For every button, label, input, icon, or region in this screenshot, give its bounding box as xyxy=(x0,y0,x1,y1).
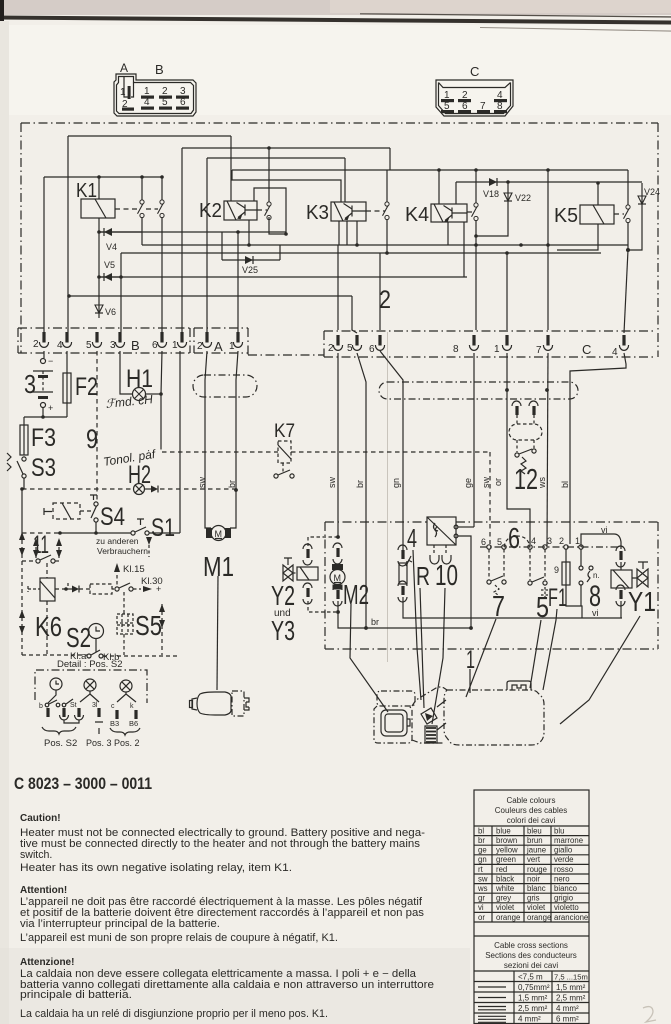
K7 lower switch xyxy=(282,463,284,472)
dashed wire 9 from pin B5 xyxy=(96,351,98,501)
connector strip C lower rail xyxy=(324,356,656,358)
svg-text:3: 3 xyxy=(24,369,36,399)
detail lamp 2 xyxy=(120,680,132,692)
diode V18 xyxy=(456,181,508,183)
diode V6 (vertical zener) xyxy=(95,305,103,313)
svg-text:grey: grey xyxy=(496,894,511,903)
svg-text:vert: vert xyxy=(527,855,541,864)
svg-text:K5: K5 xyxy=(554,205,578,227)
switch 5 xyxy=(528,581,532,585)
H2 diode xyxy=(145,488,152,490)
detail lamp 1 xyxy=(84,679,96,691)
svg-text:Cable cross sections: Cable cross sections xyxy=(494,941,568,950)
svg-text:Couleurs des cables: Couleurs des cables xyxy=(495,806,567,815)
svg-text:blu: blu xyxy=(554,826,564,835)
svg-text:M: M xyxy=(215,529,223,539)
svg-text:black: black xyxy=(496,874,514,883)
motor M2 xyxy=(332,564,343,570)
svg-text:k: k xyxy=(130,703,134,710)
S1 to thick riser xyxy=(149,532,180,534)
secondary scan line xyxy=(360,13,671,17)
svg-text:S3: S3 xyxy=(31,454,56,482)
svg-text:F1: F1 xyxy=(548,584,567,612)
combustion chamber xyxy=(381,710,407,736)
svg-text:red: red xyxy=(496,865,507,874)
S4 contact T actuator xyxy=(90,495,97,500)
wire B2 pin to battery terminal xyxy=(43,351,45,358)
S4 dashed link to contact xyxy=(80,510,93,512)
M2 wire down corner to bus628 xyxy=(338,601,471,628)
dashed stub x59 arrows xyxy=(58,540,60,559)
line thickness samples xyxy=(478,986,506,988)
svg-text:via l’interrupteur principal d: via l’interrupteur principal de la batte… xyxy=(20,918,220,930)
svg-text:La caldaia ha un relé di disgi: La caldaia ha un relé di disgiunzione pr… xyxy=(20,1008,328,1020)
svg-text:H1: H1 xyxy=(126,365,153,393)
svg-text:V6: V6 xyxy=(105,307,116,317)
detail pos brackets xyxy=(42,727,76,734)
Y2 lower pin xyxy=(306,588,309,597)
bus y=296 xyxy=(69,295,352,297)
cross sections table xyxy=(474,935,589,937)
M2 lower pin xyxy=(336,590,339,599)
wire pin2 down to F1 xyxy=(565,549,567,562)
svg-text:K7: K7 xyxy=(274,421,295,442)
svg-text:3l: 3l xyxy=(92,702,98,709)
svg-text:S2: S2 xyxy=(66,622,91,653)
K3 coil bottom risers xyxy=(339,221,357,245)
K4 coil top risers xyxy=(439,170,456,204)
svg-text:vi: vi xyxy=(601,525,608,535)
svg-text:ge: ge xyxy=(463,478,473,488)
svg-text:M: M xyxy=(334,573,342,583)
component 8 contacts xyxy=(580,549,582,566)
riser C6 to bus253 xyxy=(379,253,381,330)
svg-text:1: 1 xyxy=(120,87,126,98)
svg-text:brown: brown xyxy=(496,836,517,845)
R leader xyxy=(420,588,424,708)
riser C4 from K5 junction xyxy=(624,250,628,333)
wire bus158 right end down to K3 xyxy=(344,158,346,202)
svg-text:<7,5 m: <7,5 m xyxy=(518,973,543,982)
S4 contact to S1 bus xyxy=(95,522,97,533)
svg-text:blue: blue xyxy=(496,826,511,835)
R lower pin xyxy=(401,586,404,595)
svg-text:2: 2 xyxy=(328,343,334,354)
vi feed wire to Y1 xyxy=(581,534,621,549)
riser C7 to bus170 xyxy=(547,170,549,330)
S2 stem xyxy=(95,639,97,653)
svg-text:Pos. S2: Pos. S2 xyxy=(44,738,77,749)
KL switch xyxy=(115,587,119,591)
switch S3 xyxy=(22,457,26,461)
fuel pump right connector xyxy=(232,691,244,716)
svg-text:vi: vi xyxy=(478,903,484,912)
K3 dashed actuator link xyxy=(366,210,385,212)
relay S4 dashed frame xyxy=(53,503,80,519)
battery to bus417 xyxy=(42,407,44,417)
battery 3 plates xyxy=(33,370,53,372)
socket pin B5 xyxy=(92,332,101,347)
K3 contact xyxy=(383,202,390,220)
S4 left T mark xyxy=(44,508,52,515)
faded scan tint over italian paragraph xyxy=(0,948,470,1024)
black corner block left xyxy=(0,0,4,21)
component 12 switch xyxy=(515,453,519,457)
F1 bottom wire xyxy=(566,585,582,618)
S3 side continuation marks xyxy=(7,453,11,471)
trunk C1 or down xyxy=(507,353,530,544)
connector strip middle single rail xyxy=(248,354,324,356)
scanner dark edge line xyxy=(0,16,671,25)
Y1 coil box xyxy=(611,570,632,588)
component 12 thermal squiggle xyxy=(521,457,526,474)
continuation arrow below S1 bus xyxy=(146,537,152,545)
svg-text:K1: K1 xyxy=(76,180,97,202)
Y2 upper pin xyxy=(306,549,309,558)
M1 right wire br xyxy=(230,351,238,528)
S1 bus solid xyxy=(58,532,131,534)
trunk C2 sw down to M2 xyxy=(337,353,339,537)
faint fold line xyxy=(387,332,388,662)
H1 left wire from pin B3 xyxy=(120,351,133,394)
svg-text:2,5 mm²: 2,5 mm² xyxy=(556,994,586,1003)
Y2/Y3 dashed branch from trunk xyxy=(336,535,340,539)
stadium junction dots xyxy=(505,388,509,392)
K1 contact a xyxy=(138,200,145,218)
svg-text:marrone: marrone xyxy=(554,836,583,845)
junction dot V4 xyxy=(97,230,101,234)
riser C1 to bus253 xyxy=(506,253,508,330)
svg-text:sw: sw xyxy=(197,477,207,489)
svg-text:K2: K2 xyxy=(199,200,222,222)
lower box bottom border xyxy=(325,648,658,650)
glow plug terminals xyxy=(454,525,458,529)
R upper pin xyxy=(401,550,404,559)
F2 down to bus417 xyxy=(66,403,68,417)
leader Y1 xyxy=(560,616,640,724)
svg-text:or: or xyxy=(493,478,503,486)
svg-text:ge: ge xyxy=(478,846,487,855)
svg-text:or: or xyxy=(478,913,485,922)
wire riser A2 to bus158 xyxy=(206,158,208,332)
K7 dashed line right xyxy=(291,451,490,453)
svg-text:6 mm²: 6 mm² xyxy=(556,1015,579,1024)
S5 dashed boxes xyxy=(117,614,133,623)
connector strip C upper rail xyxy=(324,330,656,332)
svg-text:br: br xyxy=(227,480,237,488)
svg-text:7,5 ...15m: 7,5 ...15m xyxy=(554,973,588,982)
wire riser B2 to bus177 xyxy=(43,177,45,332)
svg-text:Cable colours: Cable colours xyxy=(507,796,556,805)
svg-text:4: 4 xyxy=(144,97,150,108)
K5 contact risers xyxy=(627,170,629,250)
S2 switch xyxy=(87,654,91,658)
trunk C4 bl jog down xyxy=(570,353,626,544)
K6 bottom dashed xyxy=(46,601,48,655)
svg-text:K6: K6 xyxy=(35,611,62,642)
socket pin A1 xyxy=(233,332,242,347)
diode V25 xyxy=(222,259,280,261)
svg-text:4: 4 xyxy=(407,523,417,553)
riser C2 to bus245 xyxy=(337,245,339,330)
K2 loop wire xyxy=(254,188,286,234)
connector plug A/B outline xyxy=(114,74,196,116)
svg-text:3: 3 xyxy=(547,536,552,546)
wire riser B1 to bus148 xyxy=(181,148,183,332)
K2 contact riser top xyxy=(268,148,270,202)
bus y=180 K3 feed xyxy=(232,170,341,202)
svg-text:sezioni dei cavi: sezioni dei cavi xyxy=(504,961,558,970)
svg-text:Attention!: Attention! xyxy=(20,885,67,896)
H1 right wire to junction xyxy=(146,393,162,395)
V18 line continues to V24 column xyxy=(508,181,642,183)
left edge scan shading xyxy=(0,21,9,1024)
svg-text:jaune: jaune xyxy=(526,846,546,855)
big box left border xyxy=(20,123,22,353)
svg-text:Pos. 2: Pos. 2 xyxy=(114,738,140,748)
svg-text:12: 12 xyxy=(514,464,538,496)
svg-text:5: 5 xyxy=(497,537,502,547)
detail dash-dot frame xyxy=(35,670,147,703)
M1 leader line to pump xyxy=(217,576,218,690)
bus y=417 xyxy=(24,416,67,418)
K5 coil top junction dot xyxy=(596,181,600,185)
svg-text:6: 6 xyxy=(180,97,186,108)
connector 6 dashed arc pins 5-4 xyxy=(504,536,530,547)
svg-text:2: 2 xyxy=(33,339,39,350)
svg-text:A: A xyxy=(214,339,223,354)
svg-text:ws: ws xyxy=(537,477,547,489)
svg-text:sw: sw xyxy=(478,874,488,883)
leader 4 xyxy=(413,550,421,700)
Y1 valve symbol xyxy=(637,569,648,587)
svg-text:4: 4 xyxy=(531,536,536,546)
fuse F1 xyxy=(562,562,570,585)
svg-text:rt: rt xyxy=(478,865,484,874)
fuel pump body xyxy=(197,692,231,715)
lower box right border xyxy=(657,522,659,649)
wire ge into terminal xyxy=(458,526,474,528)
junction dots on buses xyxy=(97,175,101,179)
fuse F3 xyxy=(23,417,25,425)
detail pin cups xyxy=(60,715,84,720)
socket pin B3 xyxy=(115,332,124,347)
K4 contact risers xyxy=(475,170,477,330)
connector strip A lower rail xyxy=(194,352,248,354)
svg-text:2: 2 xyxy=(379,286,391,314)
svg-text:4 mm²: 4 mm² xyxy=(518,1015,541,1024)
lower box left border xyxy=(324,522,326,649)
burner slant marks xyxy=(437,700,446,730)
svg-text:tive must be connected directl: tive must be connected directly to the h… xyxy=(20,838,420,850)
right dashed rail x162 arrows xyxy=(161,604,163,655)
leader 7 xyxy=(466,619,496,697)
M2 leader line xyxy=(350,604,388,712)
svg-text:orange: orange xyxy=(527,913,551,922)
junction dots bus628 xyxy=(364,626,368,630)
scanner top band xyxy=(0,0,671,15)
trunk C8 ge down xyxy=(473,353,475,527)
svg-text:Verbrauchern: Verbrauchern xyxy=(97,546,148,556)
wire bus148 right end down xyxy=(389,148,391,170)
svg-text:V4: V4 xyxy=(106,242,117,252)
H1 junction riser from pin B6 xyxy=(161,351,162,445)
S4 contact xyxy=(94,502,98,506)
svg-text:principale di batteria.: principale di batteria. xyxy=(20,989,132,1001)
svg-text:R: R xyxy=(416,561,430,591)
svg-text:0,75mm²: 0,75mm² xyxy=(518,983,550,992)
brighter top strip xyxy=(0,25,671,115)
K2 dashed actuator link xyxy=(257,209,267,211)
wire riser B3 busE to pin xyxy=(120,253,122,332)
Y2 coil box xyxy=(297,567,318,580)
svg-text:2,5 mm²: 2,5 mm² xyxy=(518,1004,548,1013)
bus y=158 xyxy=(207,157,345,159)
svg-text:c: c xyxy=(111,703,115,710)
svg-text:K4: K4 xyxy=(405,204,429,226)
K1 contact a risers xyxy=(141,177,143,245)
M1 left wire sw xyxy=(205,351,211,528)
svg-text:Detail : Pos. S2: Detail : Pos. S2 xyxy=(57,659,122,670)
svg-text:4 mm²: 4 mm² xyxy=(556,1004,579,1013)
junction dots V5 xyxy=(97,275,101,279)
svg-text:5: 5 xyxy=(162,97,168,108)
svg-text:S4: S4 xyxy=(100,503,125,531)
relay K5 xyxy=(580,205,614,224)
relay K3 xyxy=(331,202,366,221)
svg-text:rouge: rouge xyxy=(527,865,547,874)
K2 contact xyxy=(265,202,272,220)
K1 dashed actuator link xyxy=(115,208,158,210)
svg-text:2: 2 xyxy=(197,341,203,352)
svg-text:vi: vi xyxy=(592,608,599,618)
detail pos3 minus xyxy=(95,722,103,734)
fuse F2 xyxy=(66,351,68,373)
socket pin B1 xyxy=(177,332,186,347)
V22 wire down and left to contact xyxy=(476,182,508,236)
diode V4 xyxy=(99,231,142,233)
svg-text:St: St xyxy=(70,702,77,709)
S5 dashed riser xyxy=(123,592,125,655)
dashed resistor box xyxy=(90,584,112,594)
svg-text:gn: gn xyxy=(478,855,487,864)
svg-text:violetto: violetto xyxy=(554,903,579,912)
K6 dashed riser xyxy=(46,563,48,578)
svg-text:colori dei cavi: colori dei cavi xyxy=(507,816,556,825)
leader F1 xyxy=(543,609,557,690)
svg-text:A: A xyxy=(120,61,128,75)
dashed stub x36 arrows xyxy=(35,540,37,559)
socket pin C5 xyxy=(352,335,361,350)
svg-text:Caution!: Caution! xyxy=(20,813,61,824)
svg-text:1: 1 xyxy=(144,86,150,97)
faint pencil mark bottom right xyxy=(643,1007,656,1022)
svg-text:M2: M2 xyxy=(343,579,369,610)
svg-text:6: 6 xyxy=(508,523,520,555)
glow plug 10 box xyxy=(427,517,456,545)
svg-text:C 8023 – 3000 – 0011: C 8023 – 3000 – 0011 xyxy=(14,774,152,793)
leader 5 xyxy=(530,620,541,688)
Y1 wire down to bus618 xyxy=(620,601,622,618)
bus296 dots xyxy=(67,294,71,298)
K5 coil bottom wire xyxy=(557,224,598,250)
svg-text:H2: H2 xyxy=(128,461,151,489)
svg-text:B6: B6 xyxy=(129,719,138,728)
socket pin C6 xyxy=(375,335,384,350)
bus y=253 xyxy=(121,252,601,254)
svg-text:4: 4 xyxy=(612,347,618,358)
svg-text:verde: verde xyxy=(554,855,574,864)
svg-text:S5: S5 xyxy=(135,610,162,641)
lower box top border xyxy=(325,521,658,523)
colour rows xyxy=(477,826,588,921)
component 12 pins xyxy=(515,406,518,415)
conn6 pin 1 xyxy=(579,545,583,549)
svg-text:br: br xyxy=(478,836,485,845)
colour table grid xyxy=(474,826,589,922)
socket pin C1 xyxy=(502,335,511,350)
conn6 pin 6 xyxy=(487,545,491,549)
K5 contact xyxy=(624,205,631,223)
H2 dashed wire right to br wire xyxy=(160,488,236,490)
cable colours table frame xyxy=(474,790,589,1024)
svg-text:n.: n. xyxy=(593,571,600,580)
K4 contact xyxy=(472,203,479,221)
K6 left T mark xyxy=(28,586,40,592)
svg-text:Y2: Y2 xyxy=(271,580,295,611)
svg-text:yellow: yellow xyxy=(496,846,518,855)
socket pin C4 xyxy=(619,335,628,350)
detail wires clock/lamps xyxy=(48,690,136,703)
bus y=134 xyxy=(68,135,231,137)
svg-text:9: 9 xyxy=(86,424,98,454)
Y2 valve symbol xyxy=(283,565,293,581)
svg-text:ws: ws xyxy=(477,884,488,893)
svg-text:3: 3 xyxy=(110,340,116,351)
svg-text:V18: V18 xyxy=(483,189,499,199)
svg-text:Sections des conducteurs: Sections des conducteurs xyxy=(485,951,577,960)
svg-text:gris: gris xyxy=(527,894,540,903)
svg-text:bl: bl xyxy=(478,826,484,835)
svg-text:5: 5 xyxy=(86,340,92,351)
trunk C5 br down xyxy=(357,353,366,628)
socket pin C7 xyxy=(543,335,552,350)
leader 10 xyxy=(432,588,445,724)
svg-text:giallo: giallo xyxy=(554,846,573,855)
svg-text:gn: gn xyxy=(391,478,401,488)
svg-text:switch.: switch. xyxy=(20,849,52,861)
motor M1 xyxy=(206,528,212,538)
V24 wire down to junction xyxy=(628,183,642,250)
svg-text:grigio: grigio xyxy=(554,894,574,903)
dash-dot stadium right xyxy=(379,382,578,399)
svg-text:sw: sw xyxy=(327,477,337,489)
V18 junction dot xyxy=(506,180,510,184)
dashed rail x22 with arrows xyxy=(21,533,23,655)
K1 contact b risers xyxy=(161,177,163,332)
socket pin B4 xyxy=(62,332,71,347)
K2 coil bottom risers xyxy=(248,220,250,245)
svg-text:F3: F3 xyxy=(31,424,56,452)
dashed bottom rail y=655 xyxy=(22,655,180,656)
connector strip A upper rail xyxy=(194,327,248,329)
K4 coil bottom risers xyxy=(448,222,464,277)
svg-text:nero: nero xyxy=(554,874,570,883)
svg-text:S1: S1 xyxy=(151,514,175,542)
svg-text:V22: V22 xyxy=(515,193,531,203)
relay K2 xyxy=(224,201,257,220)
trunk C6 gn down to R xyxy=(380,351,403,550)
